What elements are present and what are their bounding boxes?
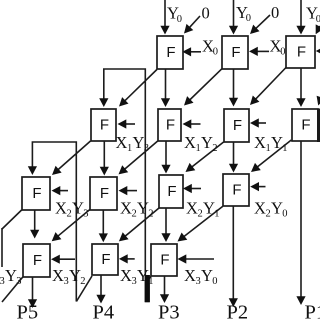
svg-text:X: X <box>254 199 266 218</box>
wire bridge feeding cell R2B1 (corner at y69, tail down x145) <box>104 69 146 275</box>
wire sum R2B4 to R3B4 <box>256 140 291 168</box>
full adder cell R3B1 <box>22 177 50 210</box>
wire carry R1B1 to R2B2 <box>165 69 167 100</box>
svg-text:F: F <box>167 183 176 200</box>
wire carry R3B4 to output P2 <box>232 206 234 299</box>
wire X3Y2 arrow into R4B1 <box>59 258 76 260</box>
full adder cell R1B2 <box>222 36 248 69</box>
svg-text:0: 0 <box>282 209 287 220</box>
svg-text:1: 1 <box>196 143 201 154</box>
svg-text:X: X <box>186 199 198 218</box>
svg-text:F: F <box>166 44 175 61</box>
svg-text:X: X <box>55 199 67 218</box>
svg-text:3: 3 <box>132 276 137 287</box>
svg-text:P3: P3 <box>158 302 180 320</box>
svg-text:X: X <box>120 266 132 285</box>
svg-text:0: 0 <box>280 47 285 58</box>
wire sum R4B2 joining x76 net <box>76 276 92 302</box>
svg-text:0: 0 <box>271 3 279 22</box>
wire X2Y0 arrow into R3B4 <box>258 186 266 188</box>
wire carry R4B1 to output P5 <box>32 277 34 301</box>
full adder cell R2B1 <box>91 109 116 141</box>
svg-text:2: 2 <box>198 209 203 220</box>
svg-text:Y: Y <box>137 199 149 218</box>
wire X2Y1 arrow into R3B3 <box>191 188 202 190</box>
svg-text:Y: Y <box>201 133 213 152</box>
svg-text:X: X <box>254 133 266 152</box>
svg-text:F: F <box>160 251 169 268</box>
wire X1Y1 arrow into R2B3 <box>258 122 267 124</box>
svg-text:F: F <box>100 116 109 133</box>
svg-text:F: F <box>33 252 42 269</box>
svg-text:1: 1 <box>127 143 132 154</box>
svg-text:0: 0 <box>316 14 320 25</box>
svg-text:X: X <box>120 199 132 218</box>
svg-text:P4: P4 <box>93 302 115 320</box>
wire X1Y2 arrow into R2B2 <box>190 123 201 125</box>
thick right edge of cell R2B4 at crop <box>317 109 320 143</box>
wire sum R4B1 down-left <box>2 277 23 302</box>
svg-text:F: F <box>297 43 306 60</box>
svg-text:0: 0 <box>202 4 210 23</box>
svg-text:F: F <box>231 44 240 61</box>
wire sum R3B3 to R4B2 <box>124 208 159 237</box>
svg-text:X: X <box>52 266 64 285</box>
wire 0 input arrow to R1B1 <box>189 16 200 28</box>
svg-text:0: 0 <box>212 276 217 287</box>
wire sum R1B2 to R2B2 <box>189 69 222 101</box>
full adder cell R4B3 <box>151 244 177 276</box>
wire Y0 input arrow col1 <box>164 0 166 27</box>
svg-text:2: 2 <box>67 209 72 220</box>
svg-text:Y: Y <box>133 133 145 152</box>
wire carry R2B1 to R3B2 <box>103 141 105 168</box>
full adder cell R1B3 <box>286 36 315 68</box>
wire X0 arrow into R1B1 <box>190 51 201 53</box>
wire X0 arrow into R1B2 <box>257 50 270 52</box>
svg-text:1: 1 <box>282 143 287 154</box>
svg-text:X: X <box>184 133 196 152</box>
svg-text:2: 2 <box>212 143 217 154</box>
wire Y0 input arrow col2 <box>233 0 235 27</box>
svg-text:P1: P1 <box>305 302 320 320</box>
svg-text:F: F <box>101 251 110 268</box>
svg-text:Y: Y <box>5 266 17 285</box>
svg-text:0: 0 <box>177 14 182 25</box>
wire carry R2B2 to R3B3 <box>165 141 167 166</box>
wire carry R4B2 to output P4 <box>100 275 102 296</box>
wire vertical net at left edge (cropped P6 column) <box>1 228 3 267</box>
svg-text:2: 2 <box>132 209 137 220</box>
full adder cell R2B3 <box>224 109 249 142</box>
svg-text:X: X <box>184 266 196 285</box>
svg-text:3: 3 <box>144 143 149 154</box>
wire sum R2B1 to R3B1 <box>57 141 90 170</box>
svg-text:2: 2 <box>266 209 271 220</box>
wire carry R2B3 to R3B4 <box>233 142 235 165</box>
wire carry R1B3 to R2B4 <box>300 68 302 100</box>
svg-text:F: F <box>32 185 41 202</box>
svg-text:1: 1 <box>214 209 219 220</box>
svg-text:3: 3 <box>64 276 69 287</box>
bold bar terminal above P3 <box>145 275 150 302</box>
svg-text:Y: Y <box>271 199 283 218</box>
svg-text:Y: Y <box>271 133 283 152</box>
wire bridge feeding cell R3B1 (corner at y142, tail down x76) <box>32 142 76 302</box>
full adder cell R3B4 <box>223 174 249 206</box>
wire X2Y3 arrow into R3B1 <box>59 190 68 192</box>
full adder cell R2B2 <box>158 109 181 141</box>
wire sum R2B2 to R3B2 <box>124 141 158 170</box>
wire 0 input arrow to R1B2 <box>255 15 270 29</box>
wire carry R3B1 to R4B1 <box>34 210 36 231</box>
wire Y0 input arrow col3 <box>300 0 302 27</box>
svg-text:F: F <box>233 117 242 134</box>
wire carry R3B3 to R4B3 <box>165 208 167 235</box>
wire sum R1B3 to R2B3 <box>255 68 286 100</box>
svg-text:F: F <box>166 116 175 133</box>
svg-text:2: 2 <box>80 276 85 287</box>
svg-text:Y: Y <box>69 266 81 285</box>
full adder cell R4B2 <box>92 244 118 275</box>
svg-text:0: 0 <box>246 13 251 24</box>
full adder cell R4B1 <box>23 244 50 277</box>
svg-text:3: 3 <box>196 276 201 287</box>
wire sum R3B4 to R4B3 <box>183 206 223 237</box>
svg-text:3: 3 <box>83 209 88 220</box>
wire sum R2B3 to R3B3 <box>191 142 224 168</box>
wire carry R3B2 to R4B2 <box>102 210 104 235</box>
svg-text:2: 2 <box>148 209 153 220</box>
full adder cell R3B2 <box>90 177 117 210</box>
bold bar terminal above P3 (over labels) <box>145 275 150 302</box>
svg-text:0: 0 <box>213 47 218 58</box>
wire sum R1B1 to R2B1 <box>124 70 157 102</box>
svg-text:Y: Y <box>203 199 215 218</box>
wire X3Y0 arrow into R4B3 <box>185 258 214 260</box>
wire carry R1B2 to R2B3 <box>233 69 235 99</box>
wire X3Y1 arrow into R4B2 <box>126 258 134 260</box>
svg-text:F: F <box>100 185 109 202</box>
full adder cell R2B4 <box>292 109 318 141</box>
svg-text:F: F <box>301 116 310 133</box>
wire carry R2B4 to output P1 <box>300 141 302 298</box>
wire X1Y3 arrow into R2B1 <box>125 123 135 125</box>
wire 0 input arrow stub to R1B3 <box>319 26 320 28</box>
svg-text:P5: P5 <box>17 302 39 320</box>
wire sum R3B1 to left net <box>2 210 22 229</box>
wire sum stub into R2B4 top-right corner <box>319 99 320 100</box>
wire sum R3B2 to R4B1 <box>57 209 90 236</box>
svg-text:Y: Y <box>72 199 84 218</box>
wire sum R4B3 into bold bar <box>146 277 151 283</box>
svg-text:Y: Y <box>201 266 213 285</box>
full adder cell R1B1 <box>157 36 183 69</box>
wire carry R4B3 to output P3 <box>164 276 166 296</box>
svg-text:X: X <box>116 133 128 152</box>
full adder cell R3B3 <box>159 175 183 208</box>
wire X2Y2 arrow into R3B2 <box>126 190 137 192</box>
svg-text:P2: P2 <box>227 302 249 320</box>
svg-text:1: 1 <box>266 143 271 154</box>
svg-text:F: F <box>232 181 241 198</box>
svg-text:3: 3 <box>16 276 21 287</box>
